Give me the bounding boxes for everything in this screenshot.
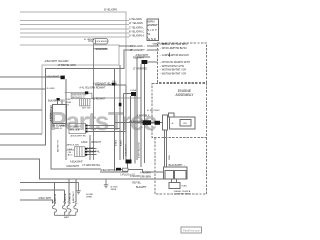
svg-text:A BLK/WHT YEL/GRN: A BLK/WHT YEL/GRN — [45, 60, 69, 63]
svg-text:RD/YEL: RD/YEL — [132, 182, 141, 185]
svg-text:A YEL/GRN →: A YEL/GRN → — [130, 45, 146, 48]
svg-text:GRN BRN: GRN BRN — [140, 176, 151, 179]
svg-text:1 2 3 4 5: 1 2 3 4 5 — [50, 112, 52, 121]
svg-text:OFF→: OFF→ — [66, 99, 73, 101]
svg-text:NEW 2L/GN: NEW 2L/GN — [67, 145, 79, 147]
svg-text:A BLK 4L: A BLK 4L — [54, 193, 57, 203]
svg-text:LT GRN RD/YEL: LT GRN RD/YEL — [82, 164, 101, 167]
svg-text:A BLK/WHT RD: A BLK/WHT RD — [71, 135, 87, 138]
svg-text:RD/WHT(LT): RD/WHT(LT) — [72, 97, 85, 99]
svg-text:– WGTHW BHTWT l GR: – WGTHW BHTWT l GR — [160, 72, 186, 75]
svg-text:WIRE: WIRE — [86, 196, 92, 198]
svg-text:ACC→: ACC→ — [68, 154, 75, 157]
svg-text:BLACK/WHT →: BLACK/WHT → — [169, 164, 186, 167]
svg-text:GRN 4L: GRN 4L — [54, 128, 63, 130]
svg-text:WIRE: WIRE — [111, 189, 117, 191]
svg-text:B RED 4L: B RED 4L — [65, 192, 67, 203]
svg-text:4L RD/WHT: 4L RD/WHT — [93, 98, 106, 101]
svg-text:A BLK/WHT: A BLK/WHT — [72, 191, 75, 203]
svg-text:MODULE: MODULE — [70, 130, 80, 132]
svg-text:BLK/WHT R: BLK/WHT R — [58, 140, 60, 152]
svg-text:LT GRN/WHT →: LT GRN/WHT → — [130, 49, 148, 52]
svg-text:OFF→: OFF→ — [68, 149, 75, 151]
svg-text:PartsTree.com: PartsTree.com — [183, 228, 200, 232]
svg-text:4L BLK/WHT: 4L BLK/WHT — [147, 110, 160, 112]
svg-text:– WGTHW BHTWT l GR: – WGTHW BHTWT l GR — [160, 69, 186, 72]
svg-text:ON→: ON→ — [68, 152, 73, 154]
svg-text:B YEL/GRN C: B YEL/GRN C — [129, 31, 144, 34]
svg-text:A4 BLK/WHT: A4 BLK/WHT — [130, 120, 144, 123]
svg-text:– CHTAC BL MGWHL WrTH: – CHTAC BL MGWHL WrTH — [160, 61, 190, 64]
svg-text:A BLK/WHT: A BLK/WHT — [70, 160, 83, 163]
svg-text:D YEL/GRN A: D YEL/GRN A — [129, 35, 144, 38]
svg-text:C GA RD: C GA RD — [130, 175, 140, 178]
svg-text:IL: IL — [148, 32, 151, 36]
svg-text:L WHT/RD GRN: L WHT/RD GRN — [174, 193, 190, 195]
svg-text:– CuRHG WThW RGLVGH: – CuRHG WThW RGLVGH — [160, 54, 189, 57]
svg-text:W15WT: W15WT — [148, 23, 158, 27]
svg-text:RD/WHT 4L: RD/WHT 4L — [87, 150, 101, 153]
svg-text:B WHT/BLK RD: B WHT/BLK RD — [138, 142, 140, 158]
svg-text:A BLK/WHT: A BLK/WHT — [66, 165, 79, 168]
svg-text:4L GRN/W: 4L GRN/W — [84, 39, 95, 41]
svg-text:A BLK: A BLK — [87, 147, 94, 150]
svg-text:KEY SW: KEY SW — [82, 107, 91, 109]
svg-text:LT RD/YEL GRN: LT RD/YEL GRN — [58, 64, 76, 67]
svg-text:BLK/WHT: BLK/WHT — [136, 186, 147, 189]
svg-text:– WT/R LRMHTW BLHCl: – WT/R LRMHTW BLHCl — [160, 47, 187, 50]
svg-text:A BLK/WHT: A BLK/WHT — [136, 54, 149, 57]
svg-text:A BLK/WHT(C): A BLK/WHT(C) — [101, 169, 117, 172]
svg-text:C ORG 4L: C ORG 4L — [70, 192, 72, 203]
svg-text:ST→: ST→ — [66, 105, 71, 107]
svg-text:FUEL: FUEL — [182, 186, 188, 188]
svg-text:BLK/WHT-ORG: BLK/WHT-ORG — [48, 100, 65, 103]
svg-text:A WHT/BLK: A WHT/BLK — [137, 114, 150, 117]
svg-text:SOLENOID: SOLENOID — [96, 48, 109, 51]
svg-text:GND: GND — [148, 37, 157, 41]
svg-text:INTERLCK: INTERLCK — [70, 126, 81, 128]
svg-text:C YEL/GRN L: C YEL/GRN L — [129, 27, 145, 30]
svg-text:A BLK → RD/WHT: A BLK → RD/WHT — [81, 141, 101, 144]
svg-text:BATT: BATT — [64, 216, 70, 219]
svg-text:A 4L YEL/GRN RD/WHT: A 4L YEL/GRN RD/WHT — [79, 87, 106, 90]
svg-text:FUSE: FUSE — [131, 90, 137, 92]
svg-text:4L GRN: 4L GRN — [47, 88, 55, 90]
svg-text:RED/WHT: RED/WHT — [133, 57, 145, 60]
svg-text:A BLK: A BLK — [119, 139, 122, 146]
svg-text:A BLK/WHT: A BLK/WHT — [46, 76, 59, 79]
svg-text:– WH/GR SMTHAW BHCl: – WH/GR SMTHAW BHCl — [160, 43, 188, 46]
svg-text:A YEL/GRN: A YEL/GRN — [129, 18, 142, 21]
svg-text:B BLK/WHT: B BLK/WHT — [125, 144, 127, 156]
svg-text:B YEL/GRN: B YEL/GRN — [104, 8, 117, 11]
svg-text:SOLENOID: SOLENOID — [97, 41, 109, 43]
svg-text:A 4L/GRN: A 4L/GRN — [140, 172, 151, 175]
svg-text:RUN→: RUN→ — [66, 102, 73, 104]
svg-text:GRN: GRN — [169, 155, 171, 160]
svg-text:LT YEL/GRN: LT YEL/GRN — [129, 22, 143, 25]
svg-text:B BLK: B BLK — [115, 139, 117, 146]
svg-text:A BLK WHT: A BLK WHT — [38, 197, 51, 200]
svg-text:ASSEMBLY: ASSEMBLY — [176, 93, 195, 97]
svg-text:LT GRN/RED: LT GRN/RED — [133, 68, 148, 71]
